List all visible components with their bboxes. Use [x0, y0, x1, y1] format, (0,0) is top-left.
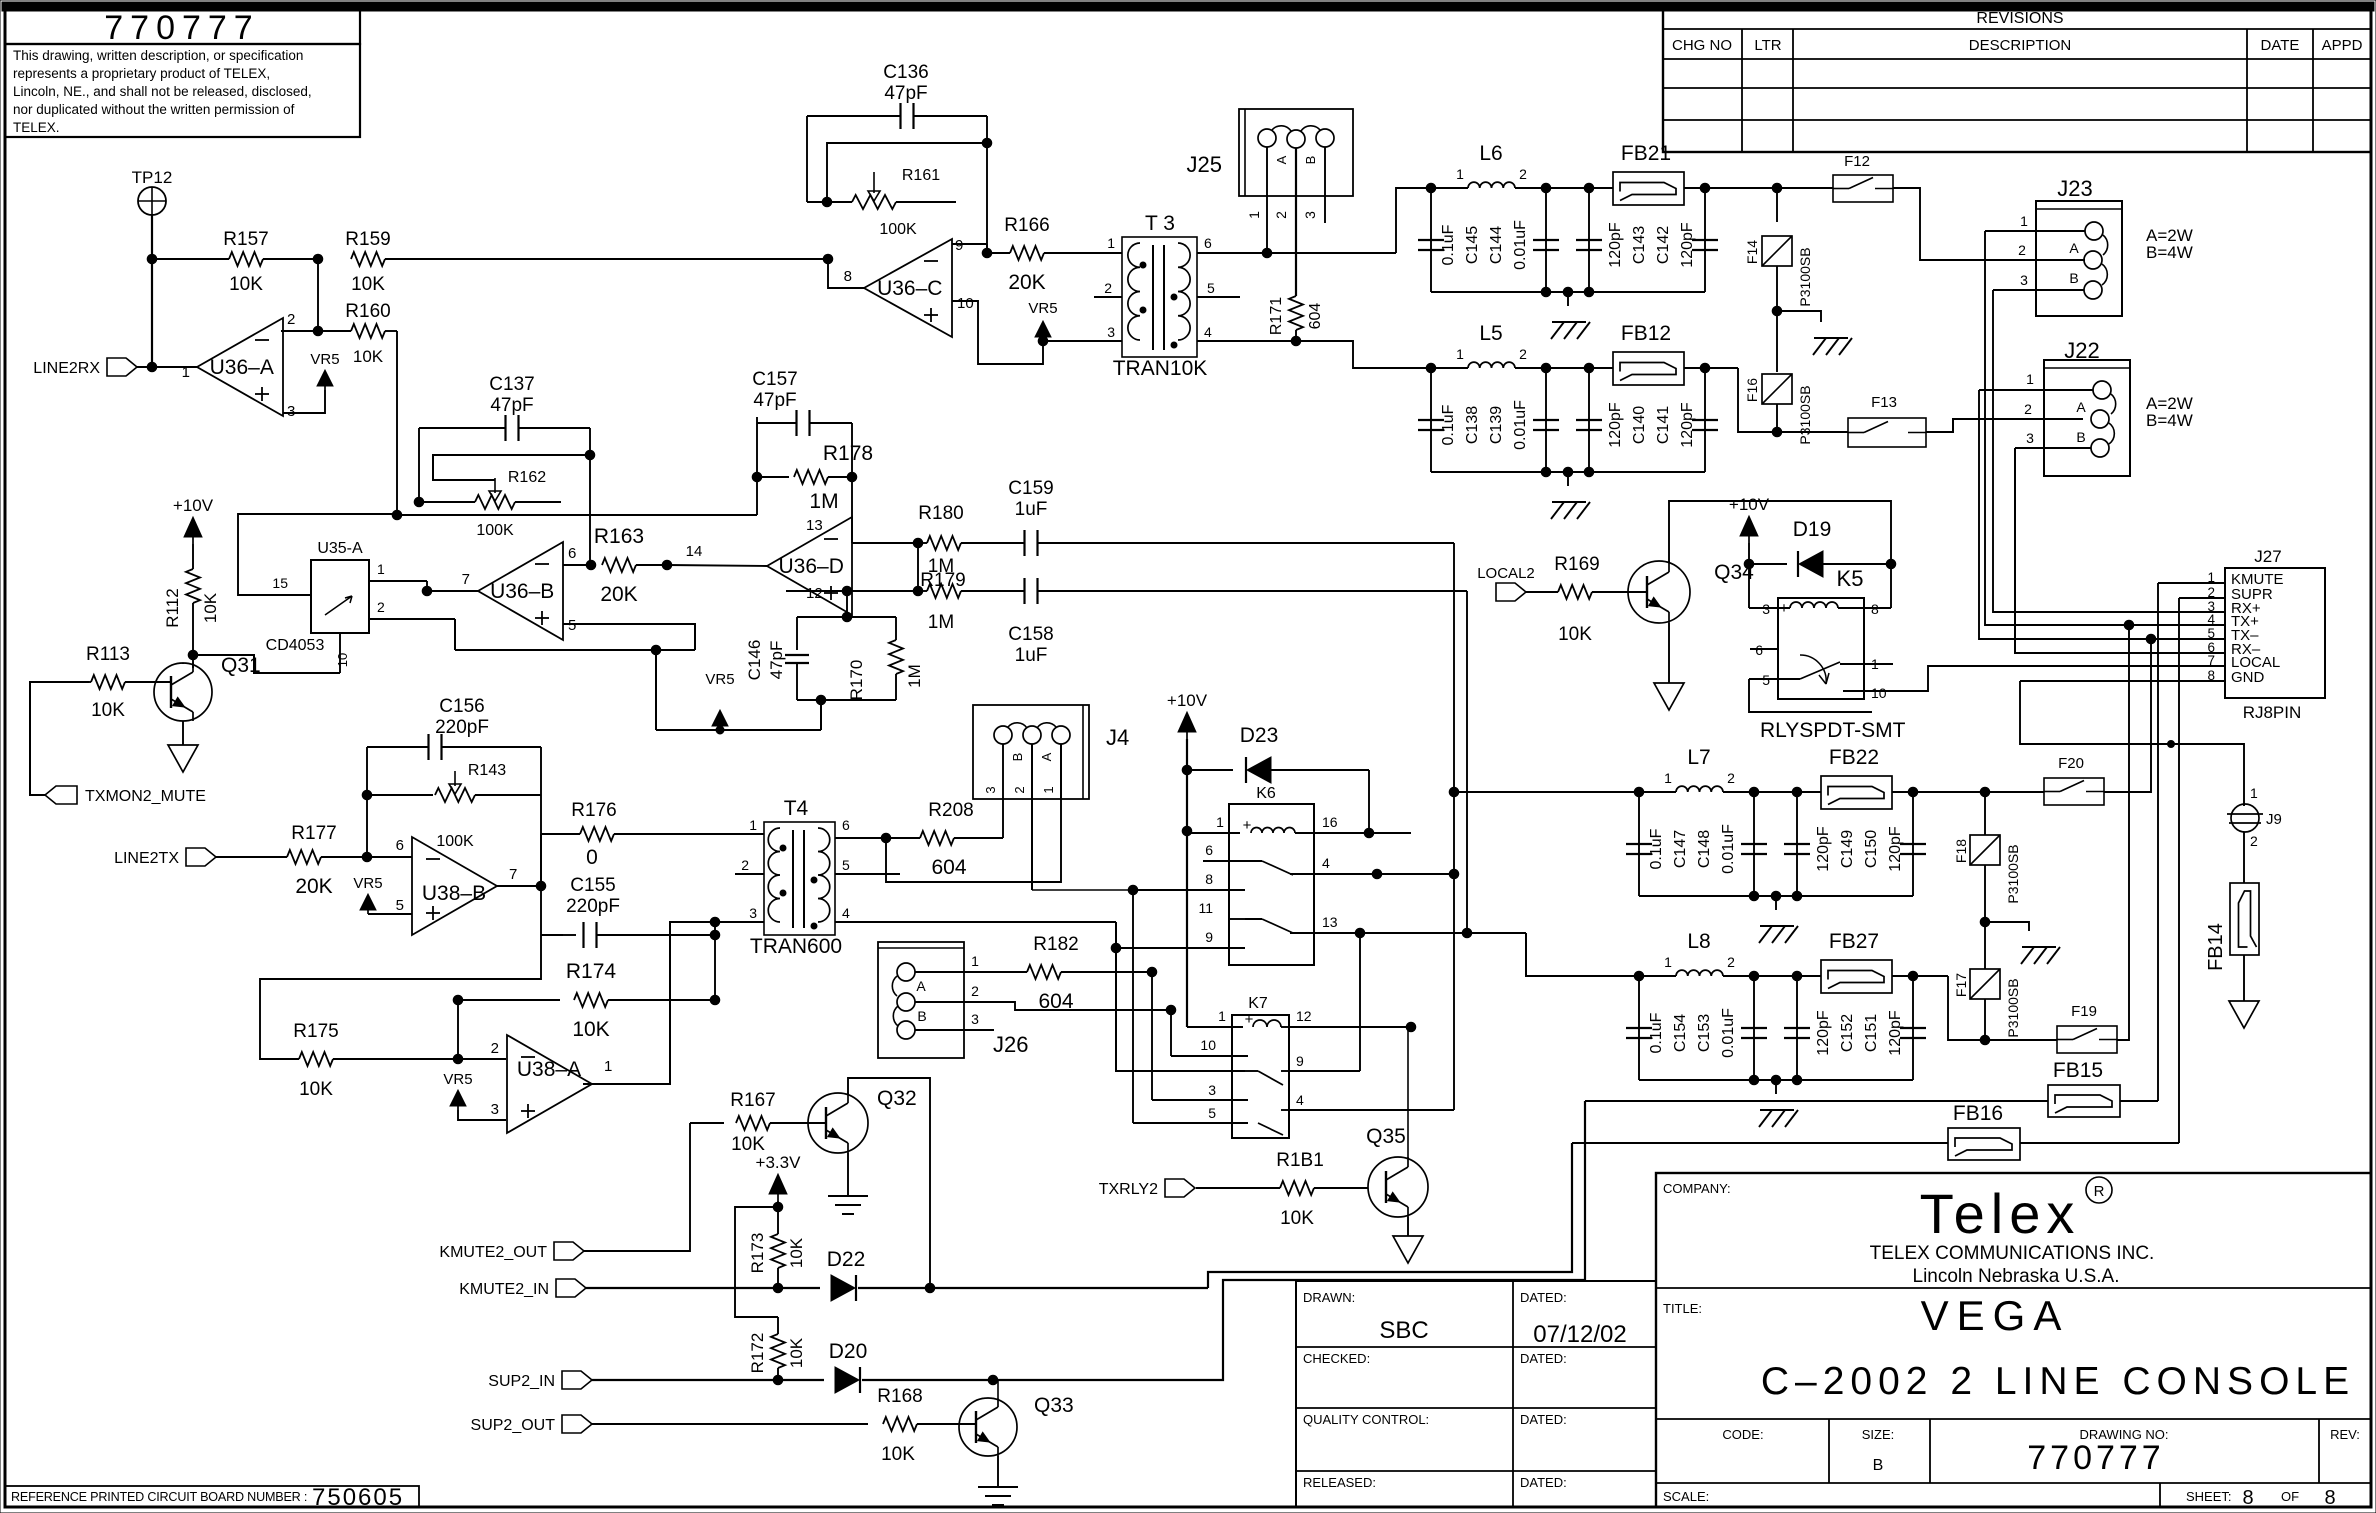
- svg-text:J26: J26: [993, 1032, 1028, 1057]
- net flag SUP2_IN: [562, 1371, 592, 1389]
- svg-text:J27: J27: [2254, 547, 2281, 566]
- stub T3 pin2: [1094, 296, 1122, 298]
- transformer T3 TRAN10K: [1122, 237, 1197, 357]
- svg-text:F19: F19: [2071, 1003, 2097, 1020]
- wire pin3 to VR5: [283, 390, 325, 413]
- node U36-C output: [823, 254, 833, 264]
- net flag SUP2_OUT: [562, 1415, 592, 1433]
- wire J4 pin2: [1031, 744, 1033, 890]
- connector J4: [973, 705, 1089, 799]
- svg-text:120pF: 120pF: [1887, 1010, 1904, 1056]
- svg-text:CD4053: CD4053: [266, 637, 325, 654]
- resistor R166 20K: [1010, 246, 1044, 260]
- svg-text:SCALE:: SCALE:: [1663, 1489, 1709, 1504]
- svg-text:1: 1: [1664, 770, 1672, 786]
- ground rail L8 group: [1639, 1079, 1913, 1081]
- capacitor C139 0.01uF: [1545, 368, 1547, 472]
- svg-text:6: 6: [1204, 235, 1212, 251]
- wire U35A-1 to U36-B out: [427, 581, 478, 591]
- svg-text:10K: 10K: [1280, 1208, 1314, 1229]
- K6 row9 stub: [1116, 947, 1245, 949]
- net flag LINE2TX: [186, 848, 216, 866]
- svg-text:7: 7: [2207, 653, 2215, 668]
- svg-text:R172: R172: [748, 1333, 767, 1374]
- wire R180/R179 left verticals: [917, 543, 919, 591]
- svg-text:3: 3: [983, 786, 998, 793]
- svg-text:1: 1: [1107, 235, 1115, 251]
- wire L7 row: [1639, 791, 1676, 793]
- svg-text:F20: F20: [2058, 755, 2084, 772]
- svg-text:R182: R182: [1033, 934, 1078, 955]
- ground at F14: [1777, 311, 1821, 322]
- svg-text:A: A: [2069, 240, 2079, 256]
- svg-text:U38–B: U38–B: [422, 882, 486, 905]
- wire bus J23-3 to RX+ row: [1993, 290, 2225, 612]
- wire J27-1 KMUTE: [2158, 582, 2225, 584]
- svg-text:A: A: [1039, 752, 1054, 761]
- svg-text:DATED:: DATED:: [1520, 1475, 1567, 1490]
- svg-text:10: 10: [1200, 1037, 1216, 1053]
- svg-text:B: B: [1303, 156, 1318, 165]
- svg-text:A: A: [916, 978, 926, 994]
- svg-text:10K: 10K: [351, 274, 385, 295]
- K6 switch 11-13: [1229, 918, 1245, 920]
- svg-text:K6: K6: [1256, 785, 1276, 802]
- wire J4 pin3: [1002, 744, 1004, 800]
- svg-text:10: 10: [957, 295, 974, 312]
- wire C158 net to K6-13 row: [1038, 590, 1467, 592]
- svg-text:2: 2: [971, 983, 979, 999]
- capacitor C154 0.1uF: [1638, 976, 1640, 1080]
- svg-text:LINE2TX: LINE2TX: [114, 850, 179, 867]
- svg-text:9: 9: [1296, 1053, 1304, 1069]
- svg-text:C156: C156: [439, 696, 484, 717]
- wire FB12 to F13: [1705, 367, 1738, 369]
- wire F12 to J23 pin2: [1893, 188, 2085, 260]
- svg-text:5: 5: [1208, 1105, 1216, 1121]
- op-amp U36-B: [478, 542, 563, 640]
- reference printed circuit board number box: [5, 1486, 419, 1507]
- resistor R208 604: [886, 837, 920, 839]
- svg-text:K7: K7: [1248, 995, 1268, 1012]
- fuse F16 P3100SB: [1776, 311, 1778, 372]
- svg-text:F17: F17: [1953, 973, 1969, 997]
- svg-text:U36–A: U36–A: [210, 356, 274, 379]
- svg-text:1: 1: [749, 817, 757, 833]
- svg-text:B: B: [1010, 753, 1025, 762]
- svg-text:C149: C149: [1839, 830, 1856, 868]
- wire F13 to J22 pin2: [1926, 419, 2083, 432]
- svg-text:OF: OF: [2281, 1489, 2299, 1504]
- svg-text:C144: C144: [1488, 226, 1505, 264]
- K7 coil 1-12: [1187, 1026, 1243, 1028]
- wire R208 to J4 pin3: [1002, 800, 1004, 838]
- resistor R168 10K: [883, 1417, 917, 1431]
- svg-text:A: A: [2076, 399, 2086, 415]
- power VR5 mid: [712, 710, 728, 726]
- svg-text:SIZE:: SIZE:: [1862, 1427, 1895, 1442]
- wire C136 feedback top loop: [807, 115, 900, 117]
- svg-text:VR5: VR5: [310, 351, 339, 368]
- wire L6 row: [1431, 187, 1468, 189]
- drawn/checked table: [1296, 1281, 1656, 1507]
- svg-text:+3.3V: +3.3V: [756, 1153, 802, 1172]
- wire pin12 row: [786, 590, 847, 592]
- wire R163 to U36-D: [667, 565, 767, 566]
- wire J9 to FB14: [2243, 832, 2245, 883]
- svg-text:R171: R171: [1268, 297, 1285, 335]
- svg-text:0.01uF: 0.01uF: [1512, 400, 1529, 450]
- ferrite bead FB14: [2230, 883, 2259, 955]
- svg-text:1: 1: [1218, 1008, 1226, 1024]
- svg-text:8: 8: [2242, 1487, 2253, 1509]
- svg-text:RJ8PIN: RJ8PIN: [2243, 703, 2302, 722]
- svg-text:12: 12: [806, 585, 823, 602]
- svg-text:1uF: 1uF: [1015, 499, 1048, 520]
- ferrite bead FB27: [1821, 960, 1892, 993]
- svg-text:SBC: SBC: [1379, 1317, 1428, 1344]
- svg-text:C142: C142: [1655, 226, 1672, 264]
- svg-text:U36–D: U36–D: [779, 555, 844, 578]
- svg-text:1: 1: [1041, 786, 1056, 793]
- transformer T4 TRAN600: [764, 822, 835, 935]
- svg-text:D23: D23: [1240, 724, 1279, 747]
- svg-text:10K: 10K: [881, 1444, 915, 1465]
- svg-text:3: 3: [491, 1101, 499, 1118]
- svg-text:47pF: 47pF: [753, 390, 796, 411]
- svg-text:P3100SB: P3100SB: [2005, 844, 2021, 903]
- svg-text:1M: 1M: [809, 490, 838, 513]
- svg-text:L5: L5: [1479, 322, 1502, 345]
- svg-text:9: 9: [955, 237, 963, 254]
- svg-text:2: 2: [1273, 211, 1289, 219]
- transistor Q31: [154, 663, 212, 721]
- wire +3.3V bypass to R172: [735, 1207, 778, 1317]
- svg-text:8: 8: [1205, 871, 1213, 887]
- svg-text:6: 6: [568, 545, 576, 562]
- svg-text:1M: 1M: [905, 664, 924, 688]
- wire U38-A out: [592, 1083, 670, 1085]
- svg-text:5: 5: [2207, 626, 2215, 641]
- svg-text:7: 7: [462, 571, 470, 588]
- wire inner loop to R161 arrow: [827, 143, 987, 202]
- wire U35-A pin10: [339, 633, 341, 673]
- wire L8 row: [1639, 975, 1676, 977]
- capacitor C152 120pF: [1796, 976, 1798, 1080]
- wire SUP2_IN row: [592, 1379, 824, 1381]
- relay K5 RLYSPDT-SMT: [1778, 598, 1864, 699]
- svg-text:2: 2: [1727, 770, 1735, 786]
- wire +10V vertical: [1186, 739, 1188, 1027]
- stub J25 pin3: [1324, 147, 1326, 223]
- svg-text:10K: 10K: [787, 1237, 806, 1268]
- svg-text:3: 3: [2020, 272, 2028, 288]
- capacitor C148 0.01uF: [1753, 792, 1755, 896]
- ferrite bead FB12: [1613, 352, 1684, 385]
- wire F18 to gnd node: [1984, 865, 1986, 922]
- svg-text:B=4W: B=4W: [2146, 411, 2193, 430]
- svg-text:220pF: 220pF: [435, 717, 489, 738]
- capacitor C142 120pF: [1700, 183, 1710, 193]
- svg-text:10K: 10K: [731, 1134, 765, 1155]
- svg-text:T 3: T 3: [1145, 212, 1175, 235]
- inductor L6: [1468, 182, 1515, 188]
- svg-text:120pF: 120pF: [1607, 222, 1624, 268]
- wire FB16 row: [1572, 1142, 1948, 1144]
- svg-text:F14: F14: [1744, 240, 1760, 264]
- fuse F19: [2057, 1026, 2117, 1053]
- wire K6-8 riser to K7-5: [1132, 890, 1134, 1123]
- svg-text:B: B: [917, 1008, 926, 1024]
- wire C137 loop: [419, 427, 505, 429]
- svg-text:C154: C154: [1672, 1014, 1689, 1052]
- svg-text:1: 1: [377, 561, 385, 577]
- svg-text:F12: F12: [1844, 153, 1870, 170]
- ground at Q32: [828, 1195, 868, 1197]
- capacitor C140 120pF: [1588, 368, 1590, 472]
- svg-text:C143: C143: [1631, 226, 1648, 264]
- svg-text:5: 5: [568, 617, 576, 634]
- resistor R169 10K: [1558, 585, 1592, 599]
- wire output U38-B down to C155: [540, 886, 542, 935]
- svg-text:770777: 770777: [104, 9, 259, 47]
- wire C137 right to pin6 node: [589, 455, 591, 565]
- wire Q33 emitter: [997, 1456, 999, 1487]
- wire J25 pin2: [1295, 148, 1297, 296]
- svg-text:VR5: VR5: [705, 671, 734, 688]
- svg-text:2: 2: [2250, 833, 2258, 849]
- svg-text:R162: R162: [508, 469, 546, 486]
- svg-text:5: 5: [1762, 672, 1770, 688]
- wire inner loop R162: [433, 455, 590, 480]
- svg-text:R167: R167: [730, 1090, 775, 1111]
- svg-text:D19: D19: [1793, 518, 1832, 541]
- capacitor C141 120pF: [1700, 363, 1710, 373]
- resistor R163 20K: [602, 558, 636, 572]
- wire riser K6-9/K7-8: [1116, 922, 1245, 1071]
- wire pin6 to R163: [563, 564, 591, 566]
- ground rail L5 group: [1431, 471, 1705, 473]
- svg-text:2: 2: [1519, 346, 1527, 362]
- feedback node riser x715: [714, 922, 716, 1000]
- power VR5 at U38-A: [450, 1090, 466, 1106]
- svg-text:2: 2: [741, 857, 749, 873]
- svg-text:C139: C139: [1488, 406, 1505, 444]
- svg-text:3: 3: [1208, 1082, 1216, 1098]
- resistor R167 10K: [690, 1122, 724, 1124]
- capacitor C138 0.1uF: [1430, 368, 1432, 472]
- svg-text:2: 2: [1519, 166, 1527, 182]
- svg-text:1: 1: [1664, 954, 1672, 970]
- wire K6-13 row step to L8: [1314, 932, 1526, 934]
- svg-text:4: 4: [1322, 855, 1330, 871]
- svg-text:100K: 100K: [879, 221, 917, 238]
- wire U36-B pin5 row: [563, 624, 695, 650]
- svg-text:1: 1: [971, 953, 979, 969]
- trimmer R161 100K: [873, 172, 875, 193]
- svg-text:20K: 20K: [1008, 271, 1045, 294]
- svg-text:C159: C159: [1008, 478, 1053, 499]
- svg-text:4: 4: [2207, 612, 2215, 627]
- svg-text:0: 0: [586, 846, 598, 869]
- svg-text:GND: GND: [2231, 669, 2265, 686]
- wire F19 to TX+ riser: [2117, 625, 2129, 1040]
- ground at Q35: [1393, 1236, 1423, 1263]
- svg-text:R180: R180: [918, 503, 963, 524]
- svg-text:604: 604: [931, 856, 966, 879]
- resistor R176 0: [580, 827, 614, 841]
- wire LOCAL2 to R169: [1526, 591, 1558, 593]
- svg-text:4: 4: [842, 905, 850, 921]
- svg-text:100K: 100K: [476, 522, 514, 539]
- svg-text:1: 1: [2020, 213, 2028, 229]
- wire F16 to F13 row: [1776, 404, 1778, 432]
- ground at F18: [1985, 922, 2029, 931]
- svg-text:4: 4: [1296, 1092, 1304, 1108]
- svg-text:TP12: TP12: [132, 168, 173, 187]
- net flag LOCAL2: [1496, 583, 1526, 601]
- svg-text:TITLE:: TITLE:: [1663, 1301, 1702, 1316]
- svg-text:R178: R178: [823, 442, 873, 465]
- svg-text:C157: C157: [752, 369, 797, 390]
- ground below FB14: [2229, 1001, 2259, 1028]
- K7 switch 3/5-4: [1152, 1099, 1248, 1101]
- svg-text:R175: R175: [293, 1021, 338, 1042]
- fuse F20: [2044, 778, 2104, 805]
- svg-text:Lincoln, NE., and shall not be: Lincoln, NE., and shall not be released,…: [13, 84, 312, 99]
- proprietary note box: [5, 44, 360, 137]
- svg-text:13: 13: [1322, 914, 1338, 930]
- svg-text:1uF: 1uF: [1015, 645, 1048, 666]
- svg-text:47pF: 47pF: [490, 395, 533, 416]
- wire pin10 to VR5 node: [952, 301, 1043, 364]
- svg-text:R163: R163: [594, 525, 644, 548]
- svg-text:FB22: FB22: [1829, 746, 1879, 769]
- svg-text:10K: 10K: [353, 347, 384, 366]
- svg-text:+: +: [1245, 1011, 1254, 1028]
- svg-text:3: 3: [2026, 430, 2034, 446]
- wire Q35 emitter to ground: [1407, 1217, 1409, 1236]
- svg-text:10: 10: [335, 653, 350, 667]
- op-amp U36-D: [767, 517, 852, 615]
- fuse F18 P3100SB: [1984, 792, 1986, 835]
- capacitor C144 0.01uF: [1545, 188, 1547, 292]
- wire GND net to FB14: [2020, 681, 2244, 806]
- svg-text:R143: R143: [468, 762, 506, 779]
- svg-text:LINE2RX: LINE2RX: [33, 360, 100, 377]
- resistor R179 1M: [918, 590, 927, 592]
- svg-text:Q32: Q32: [877, 1087, 917, 1110]
- svg-text:+: +: [1243, 817, 1252, 834]
- svg-text:R113: R113: [86, 644, 130, 665]
- svg-text:VR5: VR5: [443, 1071, 472, 1088]
- wire risers from J26/R182 nets: [1151, 972, 1153, 1100]
- svg-text:J23: J23: [2057, 176, 2092, 201]
- wire K6-4 row to riser: [1377, 873, 1454, 875]
- svg-text:C146: C146: [745, 640, 764, 681]
- capacitor C149 120pF: [1796, 792, 1798, 896]
- svg-text:2: 2: [1727, 954, 1735, 970]
- wire K5-10 to LOCAL: [1864, 666, 2225, 691]
- svg-text:FB14: FB14: [2205, 923, 2227, 971]
- svg-text:4: 4: [1204, 324, 1212, 340]
- svg-text:C147: C147: [1672, 830, 1689, 868]
- resistor R112 10K: [192, 544, 194, 569]
- wire J4 pin1: [1060, 744, 1062, 800]
- svg-text:8: 8: [844, 268, 852, 285]
- transistor Q34: [1628, 561, 1690, 623]
- svg-text:F13: F13: [1871, 394, 1897, 411]
- wire FB14 to ground: [2243, 955, 2245, 1001]
- wire R176 row: [541, 833, 580, 835]
- power +3.3V: [769, 1174, 787, 1194]
- svg-text:10K: 10K: [91, 700, 125, 721]
- testpoint TP12: [138, 187, 166, 215]
- svg-text:DATED:: DATED:: [1520, 1412, 1567, 1427]
- svg-text:C141: C141: [1655, 406, 1672, 444]
- svg-text:D20: D20: [829, 1340, 868, 1363]
- svg-text:RELEASED:: RELEASED:: [1303, 1475, 1376, 1490]
- svg-text:47pF: 47pF: [884, 83, 927, 104]
- wire output node: [497, 885, 541, 887]
- svg-text:U35-A: U35-A: [317, 540, 363, 557]
- svg-text:C152: C152: [1839, 1014, 1856, 1052]
- svg-text:C145: C145: [1464, 226, 1481, 264]
- svg-text:P3100SB: P3100SB: [1797, 385, 1813, 444]
- wire row y259: [152, 258, 229, 260]
- svg-text:3: 3: [1302, 211, 1318, 219]
- svg-text:16: 16: [1322, 814, 1338, 830]
- resistor R159: [351, 252, 385, 266]
- ferrite bead FB16: [1948, 1128, 2020, 1160]
- svg-text:B: B: [2076, 429, 2085, 445]
- svg-text:C148: C148: [1696, 830, 1713, 868]
- connector J25: [1239, 109, 1353, 196]
- ground at Q31: [168, 745, 198, 772]
- svg-text:13: 13: [806, 517, 823, 534]
- transistor Q35: [1368, 1157, 1428, 1217]
- title block company/title: [1656, 1173, 2371, 1507]
- svg-text:5: 5: [396, 897, 404, 914]
- wire K5-1 stub: [1864, 663, 1893, 665]
- stub T3 pin5: [1197, 296, 1240, 298]
- power +10V at K5: [1740, 516, 1758, 536]
- svg-text:P3100SB: P3100SB: [2005, 978, 2021, 1037]
- wire Q31 emitter to ground: [182, 721, 184, 745]
- wire output to pin8: [828, 259, 864, 288]
- svg-text:K5: K5: [1837, 566, 1864, 591]
- wire T4-4 row: [835, 921, 1116, 923]
- svg-text:1: 1: [2250, 785, 2258, 801]
- wire LINE2TX to R177: [216, 856, 287, 858]
- connector J26: [878, 942, 964, 1058]
- wire C157 loop: [757, 422, 796, 424]
- svg-text:2: 2: [2024, 401, 2032, 417]
- wire T3 pin3 row: [1043, 340, 1122, 342]
- power +10V mid: [1178, 712, 1196, 732]
- wire K7-9 riser: [1289, 1070, 1360, 1072]
- svg-text:LTR: LTR: [1754, 37, 1781, 54]
- inductor L7: [1676, 786, 1723, 792]
- wire T4 pin6 to R208: [835, 837, 886, 839]
- svg-text:C150: C150: [1863, 830, 1880, 868]
- svg-text:RLYSPDT-SMT: RLYSPDT-SMT: [1760, 719, 1906, 742]
- net flag KMUTE2_IN: [556, 1279, 586, 1297]
- svg-text:L6: L6: [1479, 142, 1502, 165]
- svg-text:1M: 1M: [928, 612, 954, 633]
- wire L7 feed: [1454, 791, 1639, 793]
- resistor R171 604: [1289, 296, 1303, 330]
